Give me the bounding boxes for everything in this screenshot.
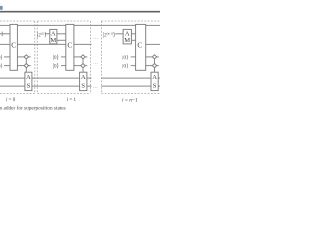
svg-text:...: ... (93, 60, 98, 66)
wire L5 block1 to diamond (17, 56, 24, 58)
ket fragment block1 (1, 32, 3, 37)
wire L7 segment a (0, 77, 25, 79)
wire L6 block1 in (4, 65, 10, 67)
svg-text:...: ... (93, 35, 98, 41)
wire L3 block3 (131, 39, 135, 41)
dashed block i=0 top edge (0, 20, 35, 22)
svg-text:M: M (124, 37, 130, 44)
wire L6 block1 to diamond (17, 65, 24, 67)
svg-text:|0⟩: |0⟩ (0, 54, 3, 61)
svg-text:M: M (50, 37, 56, 44)
svg-text:S: S (153, 83, 157, 90)
svg-text:i = 1: i = 1 (67, 98, 77, 103)
svg-text:C: C (67, 41, 72, 49)
svg-text:|0⟩: |0⟩ (53, 54, 59, 61)
wire L6 block3 in (131, 65, 136, 67)
svg-text:i = n−1: i = n−1 (122, 98, 138, 104)
wire L5 block2 in (61, 56, 66, 58)
svg-text:|0⟩: |0⟩ (122, 63, 128, 70)
wire L8 segment b (32, 85, 80, 87)
svg-text:i = 0: i = 0 (6, 98, 16, 103)
svg-text:S: S (27, 83, 31, 90)
dashed block i=0 right edge (34, 21, 36, 94)
wire L4 carry b2-gap (74, 43, 92, 45)
connector D2a-D2b (82, 59, 84, 64)
wire L6 block3 to diamond (146, 65, 153, 67)
wire L1 segment b (17, 24, 65, 26)
svg-text:C: C (11, 41, 16, 49)
dashed block i=n-1 bottom edge (101, 93, 160, 95)
svg-text:|0⟩: |0⟩ (122, 54, 128, 61)
wire L3 block2 (57, 39, 66, 41)
box AS1 (25, 72, 32, 90)
svg-text:C: C (137, 41, 142, 49)
diamond D2b (81, 64, 85, 68)
dashed block i=1 top edge (37, 20, 90, 22)
connector D1a-D1b (25, 59, 27, 64)
connector D3a-D3b (154, 59, 156, 64)
wire L1 segment d (146, 24, 160, 26)
diamond D2a (81, 55, 85, 59)
wire L5 block2 to diamond (74, 56, 81, 58)
svg-text:...: ... (93, 84, 98, 90)
wire L4 block3 out (146, 43, 160, 45)
wire L5 block2 stub (85, 56, 87, 58)
box AS3 (151, 72, 158, 90)
svg-text:n adder for superposition stat: n adder for superposition states (0, 104, 66, 111)
wire L6 block2 in (61, 65, 66, 67)
connector D3b-AS3 (154, 68, 156, 73)
wire L6 block3 stub (157, 65, 159, 67)
wire L6 block2 to diamond (74, 65, 81, 67)
wire L2 block1 (0, 33, 10, 35)
wire L8 segment c (87, 85, 92, 87)
wire L8 segment d (101, 85, 151, 87)
svg-text:A: A (152, 74, 157, 81)
wire L2 block2 out (57, 33, 66, 35)
wire L4 block1 in (0, 43, 10, 45)
svg-text:|0⟩: |0⟩ (0, 63, 3, 70)
dashed block i=1 right edge (89, 21, 91, 94)
wire L7 segment d (101, 77, 151, 79)
wire L5 block1 in (4, 56, 10, 58)
diamond D1b (24, 64, 28, 68)
box AM3 (123, 29, 131, 44)
top horizontal rule (0, 11, 160, 13)
dashed block i=n-1 top edge (101, 20, 160, 22)
wire L2 block3 out (131, 33, 135, 35)
wire L1 segment a (0, 24, 10, 26)
dashed block i=1 bottom edge (37, 93, 90, 95)
hyperlink fragment top-left (0, 6, 3, 10)
wire L8 segment e (158, 85, 160, 87)
wire L5 block3 in (131, 56, 136, 58)
diamond D3b (152, 64, 156, 68)
dashed block i=n-1 left edge (100, 21, 102, 94)
box C2 (66, 24, 74, 70)
wire L5 block3 to diamond (146, 56, 153, 58)
wire L8 segment a (0, 85, 25, 87)
wire L7 segment c (87, 77, 92, 79)
wire L2 block3 in (115, 33, 123, 35)
connector D1b-AS1 (25, 68, 27, 73)
wire L7 segment e (158, 77, 160, 79)
wire L1 segment c (74, 24, 136, 26)
dashed block i=0 bottom edge (0, 93, 35, 95)
wire L7 segment b (32, 77, 80, 79)
wire L6 block2 stub (85, 65, 87, 67)
wire L5 block3 stub (157, 56, 159, 58)
diamond D3a (152, 55, 156, 59)
wire L5 block1 stub (28, 56, 30, 58)
diamond D1a (24, 55, 28, 59)
box AS2 (80, 72, 87, 90)
box C1 (10, 24, 17, 70)
svg-text:A: A (81, 74, 86, 81)
svg-text:A: A (26, 74, 31, 81)
box C3 (136, 24, 146, 70)
wire L2 block2 in (45, 33, 50, 35)
svg-text:S: S (81, 83, 85, 90)
wire L4 carry b1-b2 (17, 43, 65, 45)
box AM2 (50, 29, 57, 44)
svg-text:|0⟩: |0⟩ (53, 63, 59, 70)
wire L6 block1 stub (28, 65, 30, 67)
connector D2b-AS2 (82, 68, 84, 73)
dashed block i=1 left edge (36, 21, 38, 94)
